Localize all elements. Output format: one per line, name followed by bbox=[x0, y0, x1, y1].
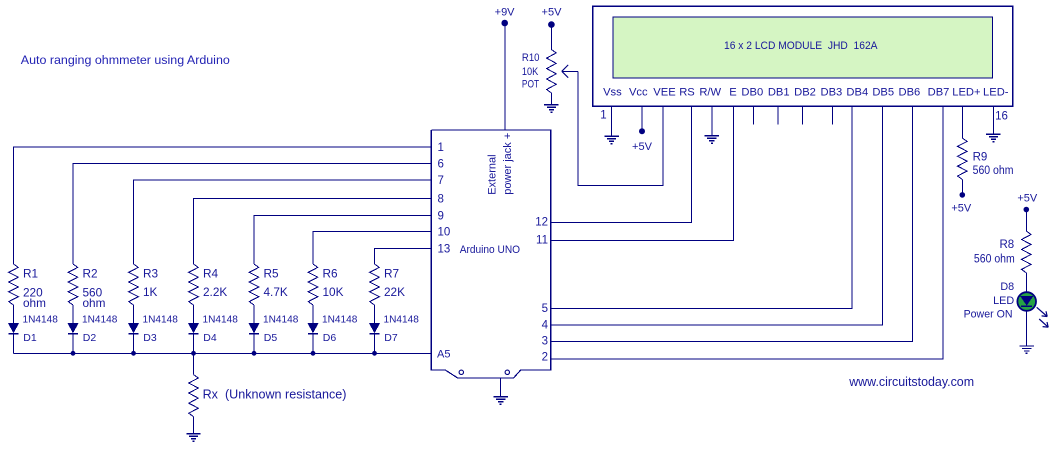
wire pin2 to DB7 bbox=[551, 106, 943, 359]
wire R10 bottom bbox=[550, 93, 552, 105]
LCD pin stub DB0 bbox=[753, 106, 755, 125]
junction dot x=313.0 bbox=[311, 351, 316, 356]
wire R5 to D5 bbox=[253, 305, 255, 323]
svg-text:10K: 10K bbox=[522, 66, 539, 78]
svg-text:10K: 10K bbox=[323, 285, 344, 299]
resistor R2 bbox=[68, 264, 78, 305]
svg-text:Arduino UNO: Arduino UNO bbox=[460, 244, 521, 256]
svg-text:LED-: LED- bbox=[983, 87, 1009, 99]
wire Arduino gnd bbox=[500, 378, 502, 397]
svg-text:1N4148: 1N4148 bbox=[203, 315, 239, 326]
wire Arduino pin 9 to R5 bbox=[254, 216, 431, 265]
diode D6 1N4148 bbox=[308, 323, 318, 333]
svg-text:1N4148: 1N4148 bbox=[23, 315, 59, 326]
svg-text:6: 6 bbox=[438, 158, 444, 170]
ground R/W bbox=[705, 136, 719, 143]
wire R8 to D8 bbox=[1025, 273, 1027, 293]
wire R3 to D3 bbox=[133, 305, 135, 323]
wire bus to Rx bbox=[193, 353, 195, 374]
wire D8 to ground bbox=[1026, 311, 1028, 346]
junction dot x=133.5 bbox=[131, 351, 136, 356]
Arduino UNO U1 outline bbox=[431, 130, 551, 378]
junction dot x=193.5 bbox=[191, 351, 196, 356]
svg-text:1K: 1K bbox=[143, 285, 158, 299]
svg-text:A5: A5 bbox=[437, 349, 450, 361]
D3 label bbox=[143, 315, 179, 345]
Arduino UNO label bbox=[460, 244, 521, 256]
svg-text:1N4148: 1N4148 bbox=[263, 315, 299, 326]
wire pin4 to DB5 bbox=[551, 106, 883, 325]
wire bottom bus to A5 bbox=[14, 352, 432, 354]
wire R4 to D4 bbox=[193, 305, 195, 323]
R6 label bbox=[323, 266, 344, 299]
LCD display label bbox=[724, 40, 878, 52]
resistor R6 bbox=[308, 264, 318, 305]
ground Rx bbox=[186, 434, 200, 441]
potentiometer R10 bbox=[547, 50, 557, 93]
wire +5V to R10 bbox=[550, 25, 552, 50]
svg-text:8: 8 bbox=[438, 194, 444, 206]
Arduino left pin numbers bbox=[438, 142, 451, 256]
svg-text:D6: D6 bbox=[323, 332, 337, 344]
D5 label bbox=[263, 315, 299, 345]
wire pin12 to RS bbox=[551, 106, 692, 223]
diode D2 1N4148 bbox=[68, 323, 78, 333]
wire +9V to Arduino bbox=[504, 23, 506, 130]
wire Rx to ground bbox=[193, 417, 195, 434]
Arduino A5 label bbox=[437, 349, 450, 361]
svg-text:DB2: DB2 bbox=[794, 87, 816, 99]
resistor R3 bbox=[129, 264, 139, 305]
ground R10 bbox=[544, 105, 558, 112]
wire Arduino pin 13 to R7 bbox=[375, 249, 432, 265]
junction dot x=254.0 bbox=[252, 351, 257, 356]
svg-text:+9V: +9V bbox=[495, 7, 516, 19]
wire R/W bbox=[711, 106, 713, 136]
LCD green display area bbox=[613, 17, 993, 78]
D2 label bbox=[82, 315, 118, 345]
svg-text:DB6: DB6 bbox=[899, 87, 921, 99]
svg-text:POT: POT bbox=[522, 79, 539, 91]
LCD pin 16 number bbox=[995, 111, 1008, 123]
wire wiper to VEE bbox=[578, 71, 663, 185]
ground Arduino bbox=[494, 397, 508, 404]
LED light arrows bbox=[1037, 307, 1049, 327]
Rx label bbox=[203, 387, 347, 401]
svg-text:D8: D8 bbox=[1000, 281, 1014, 293]
wire +5V to R8 bbox=[1025, 210, 1027, 232]
svg-text:+5V: +5V bbox=[542, 7, 563, 19]
svg-text:5: 5 bbox=[542, 303, 548, 315]
svg-text:E: E bbox=[729, 87, 736, 99]
Arduino right pin numbers 5 4 3 2 bbox=[542, 303, 549, 364]
svg-text:1: 1 bbox=[438, 142, 444, 154]
diode D7 1N4148 bbox=[369, 323, 379, 333]
svg-text:3: 3 bbox=[542, 336, 548, 348]
svg-text:560 ohm: 560 ohm bbox=[974, 253, 1015, 265]
wire D4 to bus bbox=[193, 334, 195, 354]
svg-text:R8: R8 bbox=[999, 239, 1014, 251]
svg-text:VEE: VEE bbox=[653, 87, 675, 99]
svg-text:DB0: DB0 bbox=[741, 87, 763, 99]
wire LED+ to R9 bbox=[961, 106, 963, 138]
svg-text:12: 12 bbox=[535, 217, 548, 229]
svg-text:1N4148: 1N4148 bbox=[322, 315, 358, 326]
svg-text:4: 4 bbox=[542, 319, 549, 331]
wire Arduino pin 1 to R1 bbox=[14, 147, 432, 264]
R2 label bbox=[83, 266, 106, 310]
svg-text:Vss: Vss bbox=[603, 87, 622, 99]
junction dot x=374.5 bbox=[372, 351, 377, 356]
svg-text:LED+: LED+ bbox=[952, 87, 980, 99]
wire D7 to bus bbox=[374, 334, 376, 354]
svg-text:560 ohm: 560 ohm bbox=[973, 165, 1014, 177]
R8 label bbox=[974, 239, 1015, 265]
+5V Vcc node bbox=[632, 128, 653, 153]
R1 label bbox=[23, 266, 46, 310]
R9 label bbox=[973, 151, 1014, 177]
svg-text:R2: R2 bbox=[83, 266, 98, 280]
R7 label bbox=[384, 266, 405, 299]
D8 labels bbox=[964, 281, 1015, 320]
svg-text:2.2K: 2.2K bbox=[203, 285, 227, 299]
wire pin5 to DB4 bbox=[551, 106, 852, 309]
svg-text:power jack +: power jack + bbox=[502, 133, 514, 195]
R4 label bbox=[203, 266, 227, 299]
ground D8 bbox=[1020, 346, 1034, 353]
svg-text:DB7: DB7 bbox=[928, 87, 950, 99]
svg-text:16 x 2 LCD MODULE JHD 162A: 16 x 2 LCD MODULE JHD 162A bbox=[724, 40, 878, 52]
R10 label bbox=[522, 52, 540, 91]
svg-text:9: 9 bbox=[438, 211, 444, 223]
wire Arduino pin 10 to R6 bbox=[313, 232, 431, 265]
wire R1 to D1 bbox=[13, 305, 15, 323]
svg-text:Vcc: Vcc bbox=[629, 87, 648, 99]
wire R7 to D7 bbox=[374, 305, 376, 323]
D6 label bbox=[322, 315, 358, 345]
wire R9 to +5V bbox=[961, 179, 963, 193]
LCD pin stub DB3 bbox=[831, 106, 833, 125]
title text bbox=[21, 53, 230, 67]
svg-text:D7: D7 bbox=[384, 332, 398, 344]
wire Arduino pin 7 to R3 bbox=[134, 180, 432, 264]
svg-text:R/W: R/W bbox=[699, 87, 721, 99]
resistor R1 bbox=[9, 264, 19, 305]
svg-text:4.7K: 4.7K bbox=[264, 285, 288, 299]
wire D5 to bus bbox=[253, 334, 255, 354]
wire Vss bbox=[611, 106, 613, 136]
svg-text:2: 2 bbox=[542, 351, 548, 363]
diode D1 1N4148 bbox=[8, 323, 18, 333]
wire D3 to bus bbox=[133, 334, 135, 354]
svg-text:www.circuitstoday.com: www.circuitstoday.com bbox=[848, 374, 974, 389]
resistor R8 bbox=[1022, 231, 1032, 273]
svg-text:D2: D2 bbox=[83, 332, 97, 344]
svg-text:DB5: DB5 bbox=[872, 87, 894, 99]
diode D4 1N4148 bbox=[188, 323, 198, 333]
svg-text:DB4: DB4 bbox=[846, 87, 868, 99]
ground Vss bbox=[604, 136, 618, 143]
wire Arduino pin 8 to R4 bbox=[194, 199, 432, 265]
svg-text:7: 7 bbox=[438, 175, 444, 187]
wire D6 to bus bbox=[312, 334, 314, 354]
Arduino external power label bbox=[487, 133, 515, 195]
svg-text:D1: D1 bbox=[23, 332, 37, 344]
wire pin3 to DB6 bbox=[551, 106, 913, 341]
svg-text:D3: D3 bbox=[143, 332, 157, 344]
resistor Rx bbox=[189, 375, 199, 417]
wire LED- bbox=[992, 106, 994, 134]
R10 wiper arrow bbox=[562, 65, 578, 78]
diode D5 1N4148 bbox=[249, 323, 259, 333]
Arduino mounting hole right bbox=[505, 370, 509, 374]
svg-text:ohm: ohm bbox=[23, 296, 46, 310]
svg-text:+5V: +5V bbox=[951, 203, 972, 215]
svg-text:10: 10 bbox=[438, 227, 451, 239]
svg-text:1N4148: 1N4148 bbox=[82, 315, 118, 326]
svg-text:R6: R6 bbox=[323, 266, 339, 280]
+5V supply (pot) bbox=[542, 7, 563, 28]
svg-text:R4: R4 bbox=[203, 266, 219, 280]
svg-text:DB3: DB3 bbox=[821, 87, 843, 99]
svg-text:R10: R10 bbox=[522, 52, 540, 64]
svg-text:ohm: ohm bbox=[83, 296, 106, 310]
LCD module U2 outline bbox=[593, 6, 1013, 106]
svg-text:22K: 22K bbox=[384, 285, 405, 299]
wire pin11 to E bbox=[551, 106, 734, 240]
svg-text:RS: RS bbox=[679, 87, 695, 99]
wire Arduino pin 6 to R2 bbox=[73, 163, 431, 264]
wire R6 to D6 bbox=[312, 305, 314, 323]
svg-text:1N4148: 1N4148 bbox=[143, 315, 179, 326]
resistor R9 bbox=[958, 138, 968, 179]
R3 label bbox=[143, 266, 159, 299]
svg-text:D4: D4 bbox=[203, 332, 217, 344]
svg-text:16: 16 bbox=[995, 111, 1008, 123]
svg-text:LED: LED bbox=[993, 295, 1014, 307]
svg-text:Rx (Unknown resistance): Rx (Unknown resistance) bbox=[203, 387, 347, 401]
LCD pin stub DB2 bbox=[802, 106, 804, 125]
Arduino mounting hole left bbox=[459, 370, 463, 374]
svg-text:1: 1 bbox=[600, 110, 606, 122]
svg-text:+5V: +5V bbox=[632, 141, 653, 153]
svg-text:External: External bbox=[487, 154, 499, 194]
LCD pin stub DB1 bbox=[777, 106, 779, 125]
ground LED- bbox=[986, 134, 1000, 141]
diode D3 1N4148 bbox=[128, 323, 138, 333]
resistor R7 bbox=[370, 264, 380, 305]
resistor R5 bbox=[249, 264, 259, 305]
Arduino right pin numbers 12 11 bbox=[535, 217, 548, 247]
wire D2 to bus bbox=[72, 334, 74, 354]
wire D1 to bus bbox=[13, 334, 15, 354]
svg-text:11: 11 bbox=[536, 234, 548, 246]
svg-text:Power ON: Power ON bbox=[964, 309, 1013, 321]
svg-text:+5V: +5V bbox=[1017, 192, 1038, 204]
+9V supply bbox=[495, 7, 516, 27]
svg-text:R9: R9 bbox=[973, 151, 988, 163]
LCD pin 1 number bbox=[600, 110, 606, 122]
svg-text:1N4148: 1N4148 bbox=[384, 315, 420, 326]
LED D8 bbox=[1017, 292, 1036, 311]
svg-text:DB1: DB1 bbox=[768, 87, 790, 99]
svg-text:13: 13 bbox=[438, 244, 451, 256]
svg-text:R1: R1 bbox=[23, 266, 38, 280]
resistor R4 bbox=[189, 264, 199, 305]
svg-text:R7: R7 bbox=[384, 266, 399, 280]
D4 label bbox=[203, 315, 239, 345]
D7 label bbox=[384, 315, 420, 345]
wire Vcc bbox=[641, 106, 643, 130]
LCD pin name labels bbox=[603, 87, 1009, 99]
svg-text:R3: R3 bbox=[143, 266, 159, 280]
svg-text:Auto ranging ohmmeter using Ar: Auto ranging ohmmeter using Arduino bbox=[21, 53, 230, 67]
+5V node R9 bbox=[951, 192, 972, 214]
svg-text:D5: D5 bbox=[264, 332, 278, 344]
D1 label bbox=[23, 315, 59, 345]
wire R2 to D2 bbox=[72, 305, 74, 323]
junction dot x=73.0 bbox=[71, 351, 76, 356]
svg-text:R5: R5 bbox=[264, 266, 280, 280]
R5 label bbox=[264, 266, 288, 299]
+5V node R8 bbox=[1017, 192, 1038, 212]
website label bbox=[848, 374, 974, 389]
